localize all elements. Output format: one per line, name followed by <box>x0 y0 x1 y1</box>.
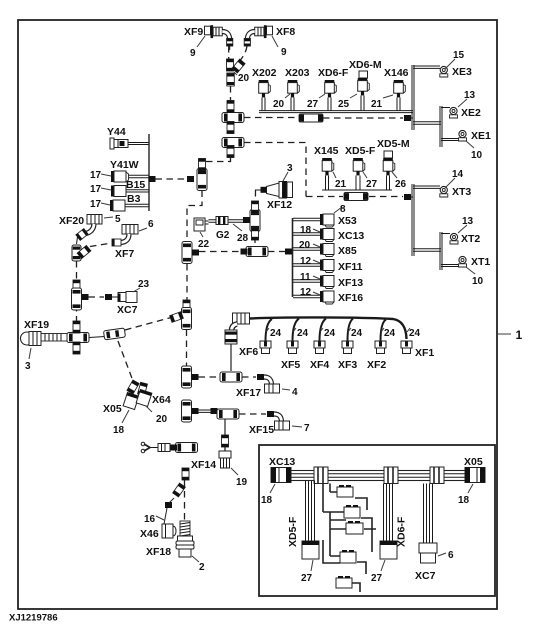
svg-text:XC7: XC7 <box>117 304 138 316</box>
inset connector XC7 <box>415 543 454 582</box>
svg-text:XE1: XE1 <box>471 130 491 142</box>
svg-text:17: 17 <box>90 199 102 210</box>
connector XC13 <box>293 225 364 242</box>
svg-text:18: 18 <box>300 225 312 236</box>
svg-text:XF17: XF17 <box>236 387 261 399</box>
connector XD6-F <box>318 67 357 111</box>
svg-text:27: 27 <box>301 573 313 584</box>
item 1 leader <box>498 328 523 342</box>
ring terminal XT3 <box>440 169 472 198</box>
svg-text:XF4: XF4 <box>310 359 329 371</box>
inset detail box <box>259 445 495 596</box>
svg-text:24: 24 <box>351 328 363 339</box>
svg-text:XD5-F: XD5-F <box>345 145 376 157</box>
connector B15 <box>90 184 149 197</box>
svg-text:26: 26 <box>395 179 407 190</box>
wire right of XF19 tee <box>89 337 105 338</box>
bus XT2 vertical <box>440 232 442 270</box>
wire jog to left column <box>202 158 231 168</box>
svg-text:14: 14 <box>452 169 464 180</box>
svg-text:XF1: XF1 <box>415 347 434 359</box>
wire XF6 down to tee <box>230 344 232 371</box>
wire to XE3 <box>413 66 440 68</box>
tee junction XF17 branch on center column <box>182 366 199 388</box>
svg-text:12: 12 <box>300 256 312 267</box>
tee junction left harness top <box>72 245 91 261</box>
svg-text:XF9: XF9 <box>184 26 203 38</box>
drop wire XF5 <box>260 319 282 354</box>
inset branch connector A <box>337 485 353 497</box>
svg-text:B3: B3 <box>127 193 141 205</box>
svg-text:18: 18 <box>113 425 125 436</box>
svg-text:XF18: XF18 <box>146 546 171 558</box>
bus XT vertical <box>412 184 414 256</box>
svg-text:4: 4 <box>292 387 298 398</box>
svg-text:6: 6 <box>148 219 154 230</box>
drop wire XF3 <box>314 319 336 354</box>
connector X05 <box>103 392 139 436</box>
svg-text:XE3: XE3 <box>452 66 472 78</box>
wire dashed T1 to splice <box>244 117 299 119</box>
connector XF13 <box>293 272 363 289</box>
svg-text:X146: X146 <box>384 67 409 79</box>
splice below T2 <box>227 146 234 158</box>
svg-text:XC13: XC13 <box>338 230 364 242</box>
svg-text:XF8: XF8 <box>276 26 295 38</box>
wire XE bus lower <box>413 122 441 124</box>
connector X145 <box>314 145 347 190</box>
svg-text:X203: X203 <box>285 67 310 79</box>
svg-text:27: 27 <box>371 573 383 584</box>
svg-text:24: 24 <box>324 328 336 339</box>
connector Y44 <box>107 126 149 149</box>
connector XF18 <box>146 536 205 573</box>
svg-text:20: 20 <box>238 73 250 84</box>
svg-text:13: 13 <box>462 216 474 227</box>
svg-text:11: 11 <box>300 272 311 283</box>
wire XF8 tail <box>241 46 248 60</box>
label B3 <box>127 193 141 205</box>
svg-text:XF7: XF7 <box>115 248 134 260</box>
svg-text:XF2: XF2 <box>367 359 386 371</box>
wire dashed splice to XE bus <box>323 117 403 119</box>
connector B3 <box>90 199 149 211</box>
svg-text:X05: X05 <box>464 456 483 468</box>
svg-text:X64: X64 <box>152 394 171 406</box>
label B15 <box>126 179 145 191</box>
connector XD5-M <box>377 138 410 190</box>
svg-text:13: 13 <box>464 90 476 101</box>
connector 22 <box>194 218 210 250</box>
connector X202 <box>252 67 290 111</box>
wire XT bus lower <box>413 249 441 251</box>
loom to XF19 <box>41 334 67 342</box>
svg-text:17: 17 <box>90 170 102 181</box>
svg-text:XF11: XF11 <box>338 261 363 273</box>
wire dashed to XC7 <box>89 294 119 300</box>
splice on left harness <box>73 280 80 292</box>
svg-text:B15: B15 <box>126 179 145 191</box>
inset branch connector E <box>336 576 352 588</box>
svg-text:XF19: XF19 <box>24 319 49 331</box>
inset connector XC13 <box>261 456 295 506</box>
connector XC7 <box>117 279 150 316</box>
connector XF7 <box>112 219 154 260</box>
wire dashed to XF6 tee <box>199 376 219 378</box>
svg-text:XF20: XF20 <box>59 215 84 227</box>
svg-text:X145: X145 <box>314 145 339 157</box>
inset branch connector B <box>344 505 360 518</box>
svg-text:XF14: XF14 <box>191 459 216 471</box>
svg-text:Y44: Y44 <box>107 126 126 138</box>
black fitting on bracket <box>149 176 156 182</box>
connector XF9 <box>184 25 233 59</box>
wire to XF14 tee <box>199 408 219 414</box>
wire center column lower <box>186 330 188 367</box>
connector X85 <box>293 240 357 257</box>
plug column bus <box>292 218 294 297</box>
connector XF11 <box>293 256 363 273</box>
inset bundle XD5-F <box>306 481 315 542</box>
inset clamp 3 <box>430 467 444 484</box>
svg-text:XT2: XT2 <box>461 233 480 245</box>
tee junction center column at cross <box>182 242 199 264</box>
svg-text:1: 1 <box>516 328 523 342</box>
svg-text:20: 20 <box>299 240 311 251</box>
svg-text:6: 6 <box>448 550 454 561</box>
svg-text:12: 12 <box>300 287 312 298</box>
svg-text:24: 24 <box>384 328 396 339</box>
svg-text:25: 25 <box>338 99 350 110</box>
tee junction left column top <box>197 159 207 191</box>
fork terminals <box>141 442 150 453</box>
svg-text:2: 2 <box>199 562 205 573</box>
svg-text:17: 17 <box>90 184 102 195</box>
tee junction XF15 branch on center column <box>182 400 199 422</box>
wire dashed cross to center column <box>199 251 242 253</box>
connector X46 <box>140 524 176 540</box>
inset bundle XD6-F <box>384 484 393 542</box>
tee junction XF14/XF15 <box>217 409 239 419</box>
splice below fork tee <box>182 468 189 480</box>
wire dashed XF7 tail to tee <box>90 243 112 247</box>
tee junction XF19 <box>67 321 89 354</box>
drop wire fifth <box>375 320 396 354</box>
wire main trunk below Y <box>230 86 232 108</box>
splice fitting on branch <box>299 114 323 122</box>
inset connector XD6-F <box>371 516 408 584</box>
connector X203 <box>285 67 325 111</box>
bus XE2 vertical <box>440 106 442 147</box>
svg-text:XT1: XT1 <box>471 256 490 268</box>
inset connector XD5-F <box>287 516 319 584</box>
wire dashed cross to plug column <box>268 251 286 253</box>
svg-text:XF5: XF5 <box>281 359 300 371</box>
connector XF20 <box>59 214 121 240</box>
connector XD5-F <box>345 145 378 190</box>
svg-text:27: 27 <box>307 99 319 110</box>
svg-text:XT3: XT3 <box>452 186 471 198</box>
connector XF15 elbow <box>249 414 310 436</box>
svg-text:28: 28 <box>237 233 249 244</box>
svg-text:9: 9 <box>190 48 196 59</box>
wire dashed X145 row harness <box>306 193 413 201</box>
bus X202 row <box>259 111 413 113</box>
ring terminal XE1 <box>441 130 491 161</box>
svg-text:XD6-M: XD6-M <box>349 59 382 71</box>
svg-text:15: 15 <box>453 50 465 61</box>
svg-text:24: 24 <box>270 328 282 339</box>
black fitting at tee stub <box>187 176 194 182</box>
labels XF5..XF2 <box>281 359 300 371</box>
inset bus harness <box>288 471 468 481</box>
connector X64 <box>136 389 171 425</box>
label 28 <box>233 224 249 244</box>
svg-text:XC13: XC13 <box>269 456 295 468</box>
svg-text:XF3: XF3 <box>338 359 357 371</box>
svg-text:9: 9 <box>281 47 287 58</box>
svg-text:XD6-F: XD6-F <box>396 516 408 547</box>
svg-text:10: 10 <box>471 150 483 161</box>
splice center column <box>183 300 190 312</box>
bus X145 row <box>322 189 392 191</box>
inset branch connector C <box>346 521 363 534</box>
tee junction XC7 branch <box>72 288 89 310</box>
svg-text:XE2: XE2 <box>461 107 481 119</box>
svg-text:21: 21 <box>371 99 383 110</box>
svg-text:24: 24 <box>409 328 421 339</box>
black fitting at XE bus <box>404 115 413 121</box>
svg-text:19: 19 <box>236 477 248 488</box>
wire to XT3 <box>413 186 440 188</box>
wire XF14 drop <box>222 419 229 451</box>
svg-text:XJ1219786: XJ1219786 <box>9 613 58 624</box>
Y junction splice <box>227 59 250 86</box>
connector XF6 elbow <box>225 313 258 358</box>
svg-text:27: 27 <box>366 179 378 190</box>
inset clamp 2 <box>384 467 398 484</box>
svg-text:3: 3 <box>25 361 31 372</box>
svg-text:XF12: XF12 <box>267 199 292 211</box>
connector XF8 <box>244 25 295 58</box>
svg-text:X85: X85 <box>338 245 357 257</box>
wire XF12 column down <box>254 240 256 243</box>
svg-text:7: 7 <box>304 423 310 434</box>
wire dashed diagonal down to X05 <box>118 341 133 381</box>
wire dashed to XF15 <box>239 411 274 417</box>
ring terminal XE2 <box>441 90 481 119</box>
svg-text:22: 22 <box>198 239 210 250</box>
connector X146 <box>384 67 409 111</box>
inset connector X05 <box>458 456 485 506</box>
wire dashed bracket to tee <box>156 178 188 180</box>
splice G2 <box>216 217 230 242</box>
svg-text:3: 3 <box>287 163 293 174</box>
wire 22 to tee <box>209 220 244 222</box>
svg-text:21: 21 <box>335 179 347 190</box>
tee junction XF6/XF17 <box>220 372 242 382</box>
wire X46 branch <box>164 498 174 524</box>
connector XF19 <box>21 319 50 372</box>
svg-text:20: 20 <box>273 99 285 110</box>
tee junction T1 <box>222 101 244 134</box>
wire XF12 tail <box>254 190 256 208</box>
Y split X05/X64 <box>127 380 147 396</box>
coil XF18 <box>180 521 190 536</box>
harness curve XF6 to XF1 <box>250 317 407 339</box>
inset branch tree wires <box>323 484 376 593</box>
connector Y41W <box>90 159 149 182</box>
svg-text:XD5-F: XD5-F <box>287 516 299 547</box>
svg-text:20: 20 <box>156 414 168 425</box>
svg-text:8: 8 <box>340 204 346 215</box>
svg-text:10: 10 <box>472 276 484 287</box>
tee junction XF12 column <box>243 201 260 240</box>
connector XF14 <box>191 451 248 488</box>
svg-text:Y41W: Y41W <box>110 159 139 171</box>
wire XF20 tail <box>77 237 78 244</box>
ring terminal XT1 <box>441 256 490 287</box>
svg-text:XC7: XC7 <box>415 570 436 582</box>
svg-text:XF15: XF15 <box>249 424 274 436</box>
drop connector XF1 <box>401 328 434 359</box>
tee junction fork branch <box>176 443 198 453</box>
svg-text:X05: X05 <box>103 403 122 415</box>
svg-text:18: 18 <box>261 495 273 506</box>
connector XF16 <box>293 287 363 304</box>
connector XF12 <box>255 163 293 211</box>
drop wire XF2 <box>342 319 363 354</box>
label 16 <box>144 514 164 525</box>
wire dashed to XF17 <box>242 374 264 380</box>
inset clamp 1 <box>314 467 328 484</box>
wire to fork <box>150 444 177 452</box>
bracket bus Y44 group <box>148 134 150 211</box>
wire dashed T2 right then down <box>244 143 306 197</box>
connector X53 <box>293 204 357 227</box>
svg-text:G2: G2 <box>216 230 230 241</box>
inset branch connector D <box>340 550 356 563</box>
Y split X46/XF18 <box>173 480 186 522</box>
svg-text:24: 24 <box>297 328 309 339</box>
tee junction diagonal joint <box>170 308 192 330</box>
svg-text:X202: X202 <box>252 67 277 79</box>
tee junction bottom cross <box>241 247 294 257</box>
wire left harness trunk <box>76 261 78 330</box>
connector XD6-M <box>349 59 393 111</box>
wire center column middle <box>186 264 188 302</box>
wire jog down to center column <box>187 191 202 244</box>
svg-text:5: 5 <box>115 214 121 225</box>
svg-text:18: 18 <box>458 495 470 506</box>
svg-text:XD5-M: XD5-M <box>377 138 410 150</box>
svg-text:X46: X46 <box>140 528 159 540</box>
bus XE vertical <box>412 65 414 130</box>
ring terminal XT2 <box>441 216 480 245</box>
svg-text:XD6-F: XD6-F <box>318 67 349 79</box>
wire XF9 tail <box>228 46 230 59</box>
tee junction T2 <box>222 138 244 148</box>
inset bundle XC7 <box>424 484 433 544</box>
svg-text:XF6: XF6 <box>239 346 258 358</box>
wire dashed diagonal up to center column <box>125 317 173 330</box>
tee junction diagonal split <box>103 328 125 340</box>
ring terminal XE3 <box>440 50 472 78</box>
drop wire XF4 <box>287 319 309 354</box>
connector XF17 elbow <box>236 377 298 399</box>
svg-text:16: 16 <box>144 514 156 525</box>
svg-text:XF16: XF16 <box>338 292 363 304</box>
svg-text:XF13: XF13 <box>338 277 363 289</box>
svg-text:X53: X53 <box>338 215 357 227</box>
